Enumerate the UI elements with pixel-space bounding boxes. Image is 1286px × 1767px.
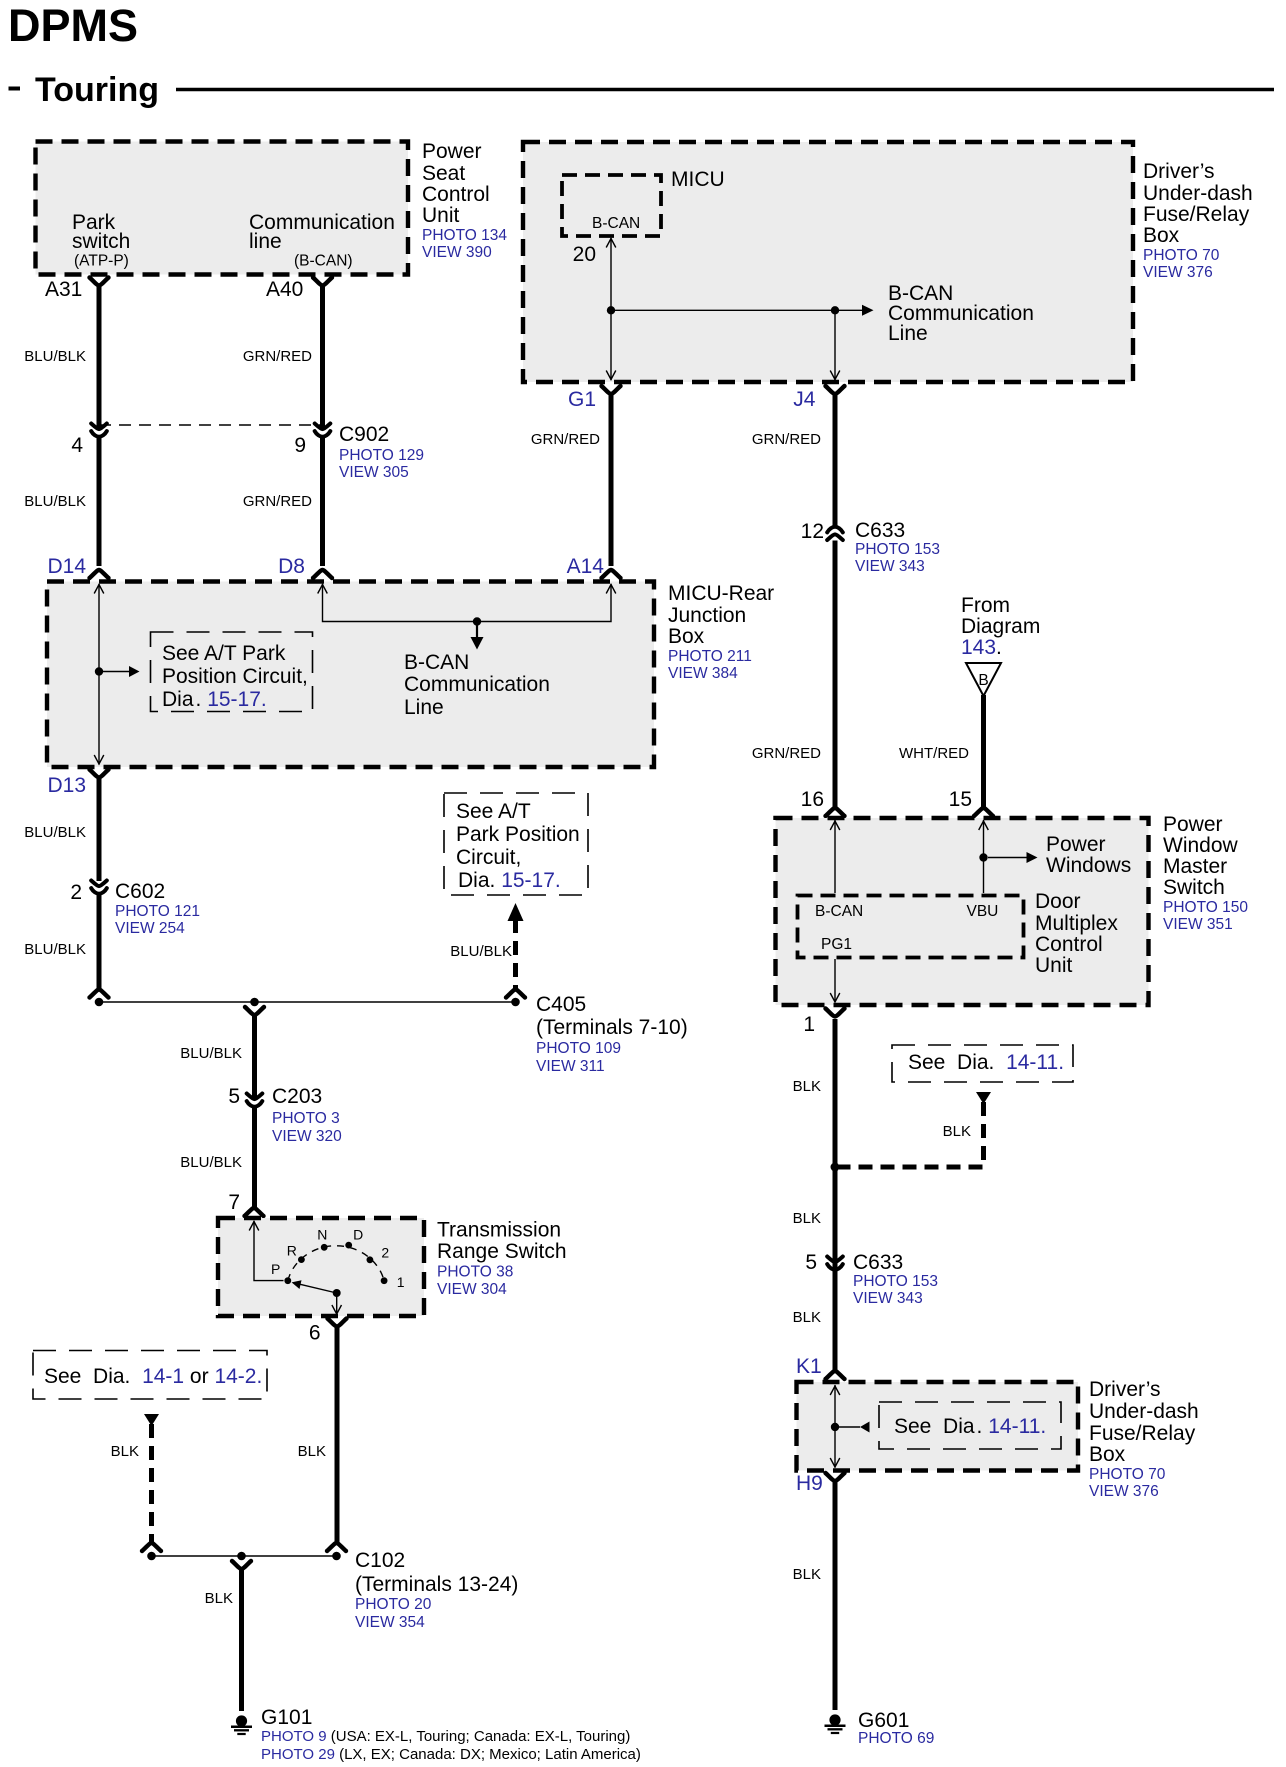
arrowhead to See Dia 14-1 (144, 1414, 159, 1426)
svg-text:Box: Box (1089, 1443, 1126, 1466)
internal line D14 to D13 (98, 584, 100, 765)
svg-text:See Dia. 14-11.: See Dia. 14-11. (908, 1051, 1064, 1074)
svg-text:PHOTO 29 (LX, EX; Canada: DX;: PHOTO 29 (LX, EX; Canada: DX; Mexico; La… (261, 1746, 641, 1763)
svg-text:12: 12 (801, 520, 824, 543)
connector terminal H9 (826, 1473, 845, 1481)
wire G1 GRN/RED (609, 395, 614, 566)
svg-text:DPMS: DPMS (8, 0, 138, 51)
svg-text:2: 2 (70, 881, 82, 904)
svg-text:D13: D13 (47, 774, 86, 797)
connector C405 bus line (99, 1001, 516, 1003)
wire A40 GRN/RED upper (320, 287, 325, 429)
heading dash (9, 87, 21, 91)
svg-text:BLK: BLK (793, 1566, 821, 1583)
svg-text:VIEW 320: VIEW 320 (272, 1128, 342, 1145)
internal line power windows arrow (988, 857, 1027, 859)
internal line 20 to G1 (610, 238, 612, 380)
box Transmission Range Switch (218, 1218, 424, 1316)
svg-text:BLU/BLK: BLU/BLK (24, 824, 86, 841)
svg-text:C602: C602 (115, 880, 165, 903)
svg-text:BLK: BLK (793, 1210, 821, 1227)
TRS contact 1 (381, 1277, 388, 1284)
TRS wiper arrowhead (292, 1280, 302, 1289)
TRS wiper pivot (333, 1289, 341, 1297)
svg-text:D14: D14 (47, 555, 86, 578)
svg-text:Range Switch: Range Switch (437, 1240, 567, 1263)
wire dashed BLU/BLK to A/T park (513, 919, 518, 989)
internal line K1 to H9 (834, 1385, 836, 1468)
box Power Window Master Switch (776, 818, 1149, 1005)
svg-text:Fuse/Relay: Fuse/Relay (1143, 203, 1250, 226)
svg-text:(Terminals 13-24): (Terminals 13-24) (355, 1573, 518, 1596)
svg-text:VIEW 354: VIEW 354 (355, 1614, 425, 1631)
svg-text:Communication: Communication (404, 673, 550, 696)
svg-text:MICU: MICU (671, 168, 725, 191)
junction on D8-A14 line (473, 617, 481, 625)
svg-text:Door: Door (1035, 890, 1081, 913)
junction on J4 line (831, 306, 839, 314)
svg-text:9: 9 (294, 434, 306, 457)
svg-text:15: 15 (949, 788, 972, 811)
svg-text:Circuit,: Circuit, (456, 846, 521, 869)
ground G601 (825, 1714, 846, 1733)
arrowhead to See Dia 14-11 upper (976, 1092, 991, 1104)
svg-text:Box: Box (668, 625, 705, 648)
box MICU-Rear Junction Box (47, 582, 654, 768)
svg-text:VIEW 343: VIEW 343 (855, 558, 925, 575)
connector terminal K1 (826, 1371, 845, 1379)
internal line 16 to B-CAN (834, 820, 836, 893)
svg-text:BLU/BLK: BLU/BLK (24, 348, 86, 365)
svg-text:B-CAN: B-CAN (592, 215, 640, 232)
connector terminal PWMS 15 (974, 808, 993, 816)
connector terminal A31 (90, 278, 109, 286)
wire 6 BLK (335, 1328, 340, 1543)
junction on K1-H9 line (831, 1423, 839, 1431)
svg-text:MICU-Rear: MICU-Rear (668, 582, 774, 605)
connector C902 pin 4 (91, 424, 107, 437)
svg-text:Windows: Windows (1046, 854, 1131, 877)
svg-text:BLK: BLK (205, 1590, 233, 1607)
TRS contact R (298, 1256, 305, 1263)
internal line 15 to VBU (983, 820, 985, 893)
connector terminal J4 (826, 386, 845, 394)
internal line TRS wiper to pin6 (336, 1293, 338, 1314)
arrowhead right to A/T park ref (129, 666, 140, 677)
svg-text:5: 5 (228, 1085, 240, 1108)
svg-text:VIEW 376: VIEW 376 (1089, 1483, 1159, 1500)
wire to TRS BLU/BLK (252, 1108, 257, 1208)
arrowhead down at pin1 (830, 993, 840, 1002)
svg-text:GRN/RED: GRN/RED (752, 431, 821, 448)
svg-text:G101: G101 (261, 1706, 312, 1729)
svg-text:Touring: Touring (35, 71, 159, 109)
arrowhead up to A/T park circuit (508, 903, 524, 921)
svg-text:BLK: BLK (111, 1443, 139, 1460)
B-CAN branch stem (476, 623, 478, 638)
connector C102 terminal right (327, 1543, 346, 1551)
svg-text:PHOTO 134: PHOTO 134 (422, 227, 507, 244)
svg-text:D: D (353, 1227, 363, 1243)
arrowhead left See Dia 14-11 lower (860, 1422, 870, 1433)
connector terminal PWMS 16 (826, 808, 845, 816)
svg-text:Master: Master (1163, 855, 1227, 878)
connector terminal TRS pin 6 (328, 1319, 347, 1327)
svg-text:See Dia. 14-1 or 14-2.: See Dia. 14-1 or 14-2. (44, 1365, 262, 1388)
heading rule (176, 88, 1274, 91)
TRS wiper arm (297, 1284, 337, 1293)
svg-text:Power: Power (422, 140, 482, 163)
svg-text:Driver’s: Driver’s (1143, 160, 1215, 183)
svg-text:switch: switch (72, 230, 130, 253)
wire 4 to D14 BLU/BLK (97, 438, 102, 567)
TRS contact arc (288, 1246, 384, 1281)
box Drivers Under-dash Fuse/Relay Box top (523, 142, 1133, 382)
svg-text:A31: A31 (45, 278, 82, 301)
svg-text:7: 7 (228, 1191, 240, 1214)
svg-text:B-CAN: B-CAN (815, 903, 863, 920)
svg-text:J4: J4 (793, 388, 816, 411)
connector terminal G1 (602, 386, 621, 394)
svg-text:WHT/RED: WHT/RED (899, 745, 969, 762)
svg-text:A40: A40 (266, 278, 303, 301)
arrow line to A/T park ref (103, 671, 130, 673)
svg-text:(B-CAN): (B-CAN) (294, 253, 353, 270)
svg-text:P: P (271, 1261, 280, 1277)
arrowhead up at A14 (606, 585, 616, 594)
connector C902 link line (99, 424, 323, 426)
svg-text:PG1: PG1 (821, 936, 852, 953)
box Power Seat Control Unit (36, 142, 409, 275)
connector C102 terminal left (142, 1543, 161, 1551)
internal line to See Dia 14-11 lower (839, 1426, 860, 1428)
svg-text:From: From (961, 594, 1010, 617)
svg-text:BLU/BLK: BLU/BLK (24, 493, 86, 510)
svg-text:Position Circuit,: Position Circuit, (162, 665, 308, 688)
ref box See A/T Park Position Circuit (internal) (151, 632, 313, 712)
junction on G1 line (607, 306, 615, 314)
junction C102 middle (237, 1552, 246, 1561)
TRS contact P (284, 1277, 291, 1284)
svg-text:See A/T: See A/T (456, 800, 531, 823)
svg-text:VIEW 384: VIEW 384 (668, 665, 738, 682)
arrowhead down B-CAN branch (471, 637, 484, 650)
svg-text:VIEW 376: VIEW 376 (1143, 264, 1213, 281)
junction C405 left (95, 998, 104, 1007)
wire to G101 BLK (239, 1570, 244, 1711)
svg-text:PHOTO 70: PHOTO 70 (1089, 1466, 1166, 1483)
svg-text:PHOTO 38: PHOTO 38 (437, 1264, 513, 1281)
connector C633 pin 5 (827, 1257, 843, 1270)
svg-text:Park Position: Park Position (456, 823, 580, 846)
TRS contact 2 (367, 1256, 374, 1263)
connector terminal A14 (602, 570, 621, 578)
svg-text:PHOTO 109: PHOTO 109 (536, 1040, 621, 1057)
connector terminal D13 (90, 770, 109, 778)
arrowhead up at 15 (979, 821, 989, 830)
ref box See Dia 14-11 lower (879, 1402, 1061, 1449)
wire 12 to 16 GRN/RED (833, 541, 838, 808)
svg-text:(ATP-P): (ATP-P) (74, 253, 129, 270)
arrowhead up at D8 (318, 585, 328, 594)
arrowhead right B-CAN comm (862, 305, 874, 316)
ref box See Dia 14-11 upper (892, 1045, 1073, 1082)
svg-text:BLK: BLK (793, 1309, 821, 1326)
svg-text:PHOTO 153: PHOTO 153 (853, 1273, 938, 1290)
svg-text:PHOTO 3: PHOTO 3 (272, 1110, 340, 1127)
connector terminal A40 (313, 278, 332, 286)
svg-text:See A/T Park: See A/T Park (162, 642, 286, 665)
node B from diagram 143 (966, 663, 1001, 696)
svg-text:BLK: BLK (793, 1078, 821, 1095)
arrowhead down at J4 (830, 371, 840, 380)
arrowhead up at B-CAN micu (606, 239, 616, 248)
svg-text:C633: C633 (855, 519, 905, 542)
svg-text:Junction: Junction (668, 604, 746, 627)
internal line TRS pin7 to P (254, 1221, 284, 1281)
internal line junction to J4 (834, 314, 836, 380)
arrowhead down at G1 (606, 371, 616, 380)
svg-text:Driver’s: Driver’s (1089, 1378, 1161, 1401)
svg-text:BLU/BLK: BLU/BLK (450, 943, 512, 960)
svg-text:Under-dash: Under-dash (1143, 182, 1253, 205)
svg-text:VIEW 351: VIEW 351 (1163, 916, 1233, 933)
wire to C203 BLU/BLK (252, 1016, 257, 1098)
svg-text:GRN/RED: GRN/RED (531, 431, 600, 448)
svg-text:Under-dash: Under-dash (1089, 1400, 1199, 1423)
arrowhead up at K1 (830, 1386, 840, 1395)
wire 9 to D8 GRN/RED (320, 438, 325, 567)
box MICU B-CAN (internal) (562, 175, 661, 236)
junction on D14-D13 line (95, 667, 103, 675)
arrowhead up TRS entry (249, 1222, 259, 1231)
junction C102 right (332, 1552, 341, 1561)
svg-text:BLK: BLK (943, 1123, 971, 1140)
connector C405 terminal middle (245, 1007, 264, 1015)
connector C203 pin 5 (247, 1094, 263, 1107)
svg-text:line: line (249, 230, 282, 253)
connector C902 pin 9 (315, 424, 331, 437)
svg-text:Fuse/Relay: Fuse/Relay (1089, 1422, 1196, 1445)
internal line PG1 to pin1 (834, 959, 836, 1002)
svg-text:Line: Line (404, 696, 444, 719)
svg-text:Window: Window (1163, 834, 1239, 857)
svg-text:VIEW 390: VIEW 390 (422, 244, 492, 261)
svg-text:Unit: Unit (422, 204, 460, 227)
svg-text:A14: A14 (567, 555, 605, 578)
svg-text:6: 6 (309, 1322, 321, 1345)
wire dashed BLK left branch (149, 1424, 154, 1543)
svg-text:BLU/BLK: BLU/BLK (180, 1045, 242, 1062)
connector C102 bus line (152, 1555, 337, 1557)
internal line D8 to A14 (323, 584, 612, 622)
svg-text:H9: H9 (796, 1472, 823, 1495)
arrowhead up at D14 (94, 585, 104, 594)
svg-text:GRN/RED: GRN/RED (243, 348, 312, 365)
svg-text:G601: G601 (858, 1709, 909, 1732)
svg-text:PHOTO 9 (USA: EX-L, Touring; C: PHOTO 9 (USA: EX-L, Touring; Canada: EX-… (261, 1728, 630, 1745)
svg-text:C203: C203 (272, 1085, 322, 1108)
connector C602 pin 2 (91, 881, 107, 894)
svg-text:Box: Box (1143, 224, 1180, 247)
svg-text:1: 1 (397, 1274, 405, 1290)
svg-text:Power: Power (1163, 813, 1223, 836)
arrowhead down at D13 (94, 755, 104, 764)
TRS contact N (321, 1244, 328, 1251)
svg-text:GRN/RED: GRN/RED (243, 493, 312, 510)
connector terminal D14 (90, 570, 109, 578)
svg-text:BLU/BLK: BLU/BLK (180, 1154, 242, 1171)
connector C102 terminal middle (232, 1561, 251, 1569)
wire 2 to C405 BLU/BLK (97, 895, 102, 989)
svg-text:Control: Control (422, 183, 490, 206)
wire 1 to K1 BLK (833, 1019, 838, 1371)
svg-text:1: 1 (803, 1013, 815, 1036)
connector terminal TRS pin 7 (245, 1208, 264, 1216)
wire H9 to G601 BLK (833, 1482, 838, 1710)
svg-text:D8: D8 (278, 555, 305, 578)
svg-text:Line: Line (888, 322, 928, 345)
svg-text:B: B (978, 672, 988, 689)
svg-text:20: 20 (573, 243, 596, 266)
ref box See A/T Park Position Circuit (standalone) (444, 793, 588, 895)
box Door Multiplex Control Unit (internal) (798, 896, 1024, 958)
arrowhead down at H9 (830, 1458, 840, 1467)
junction on VBU line (979, 853, 987, 861)
svg-text:C633: C633 (853, 1251, 903, 1274)
svg-text:VIEW 304: VIEW 304 (437, 1281, 507, 1298)
connector terminal PWMS 1 (826, 1009, 845, 1017)
svg-text:Unit: Unit (1035, 954, 1073, 977)
ground G101 (231, 1715, 252, 1734)
svg-text:Transmission: Transmission (437, 1219, 561, 1242)
svg-text:C902: C902 (339, 423, 389, 446)
arrowhead up at 16 (830, 821, 840, 830)
svg-text:5: 5 (805, 1251, 817, 1274)
wire J4 GRN/RED upper (833, 395, 838, 527)
svg-text:K1: K1 (796, 1355, 822, 1378)
svg-text:PHOTO 153: PHOTO 153 (855, 541, 940, 558)
svg-text:VIEW 311: VIEW 311 (536, 1058, 605, 1075)
connector C405 terminal right (506, 990, 525, 998)
internal line B-CAN comm arrow (615, 309, 862, 311)
svg-text:PHOTO 20: PHOTO 20 (355, 1596, 432, 1613)
junction C405 middle (250, 998, 259, 1007)
svg-text:4: 4 (71, 434, 83, 457)
svg-text:Seat: Seat (422, 162, 465, 185)
svg-text:Multiplex: Multiplex (1035, 912, 1118, 935)
wire A31 BLU/BLK upper (97, 287, 102, 429)
junction BLK wires (831, 1163, 840, 1172)
svg-text:Dia. 15-17.: Dia. 15-17. (458, 869, 561, 892)
connector terminal D8 (313, 570, 332, 578)
svg-text:VIEW 343: VIEW 343 (853, 1290, 923, 1307)
svg-text:B-CAN: B-CAN (404, 651, 469, 674)
svg-text:C405: C405 (536, 993, 586, 1016)
svg-text:Diagram: Diagram (961, 615, 1040, 638)
wire dashed BLK to See Dia 14-11 (839, 1102, 984, 1167)
svg-text:PHOTO 69: PHOTO 69 (858, 1730, 934, 1747)
svg-text:BLK: BLK (298, 1443, 326, 1460)
svg-text:143.: 143. (961, 636, 1002, 659)
junction C102 left (147, 1552, 156, 1561)
svg-text:2: 2 (381, 1245, 389, 1261)
wire B to 15 WHT/RED (981, 695, 986, 807)
connector C633 pin 12 (827, 527, 843, 540)
wire D13 BLU/BLK (97, 779, 102, 882)
ref box See Dia 14-1 or 14-2 (33, 1351, 267, 1400)
svg-text:GRN/RED: GRN/RED (752, 745, 821, 762)
junction C405 right (511, 998, 520, 1007)
svg-text:PHOTO 211: PHOTO 211 (668, 648, 752, 665)
svg-text:(Terminals 7-10): (Terminals 7-10) (536, 1016, 688, 1039)
connector C405 terminal left (90, 990, 109, 998)
svg-text:Control: Control (1035, 933, 1103, 956)
svg-text:See Dia. 14-11.: See Dia. 14-11. (894, 1415, 1046, 1438)
svg-text:PHOTO 150: PHOTO 150 (1163, 899, 1248, 916)
svg-text:PHOTO 70: PHOTO 70 (1143, 247, 1220, 264)
svg-text:N: N (317, 1227, 327, 1243)
svg-text:VIEW 254: VIEW 254 (115, 920, 185, 937)
arrowhead down TRS exit (332, 1305, 342, 1314)
svg-text:Power: Power (1046, 833, 1106, 856)
svg-text:G1: G1 (568, 388, 596, 411)
svg-text:PHOTO 121: PHOTO 121 (115, 903, 200, 920)
arrowhead right power windows (1027, 852, 1038, 863)
svg-text:16: 16 (801, 788, 824, 811)
svg-text:PHOTO 129: PHOTO 129 (339, 447, 424, 464)
svg-text:C102: C102 (355, 1549, 405, 1572)
svg-text:VIEW 305: VIEW 305 (339, 464, 409, 481)
svg-text:Dia. 15-17.: Dia. 15-17. (162, 688, 267, 711)
svg-text:BLU/BLK: BLU/BLK (24, 941, 86, 958)
svg-text:R: R (287, 1243, 297, 1259)
box Drivers Under-dash Fuse/Relay Box bottom (797, 1382, 1079, 1471)
svg-text:Switch: Switch (1163, 876, 1225, 899)
TRS contact D (345, 1242, 352, 1249)
svg-text:VBU: VBU (967, 903, 999, 920)
